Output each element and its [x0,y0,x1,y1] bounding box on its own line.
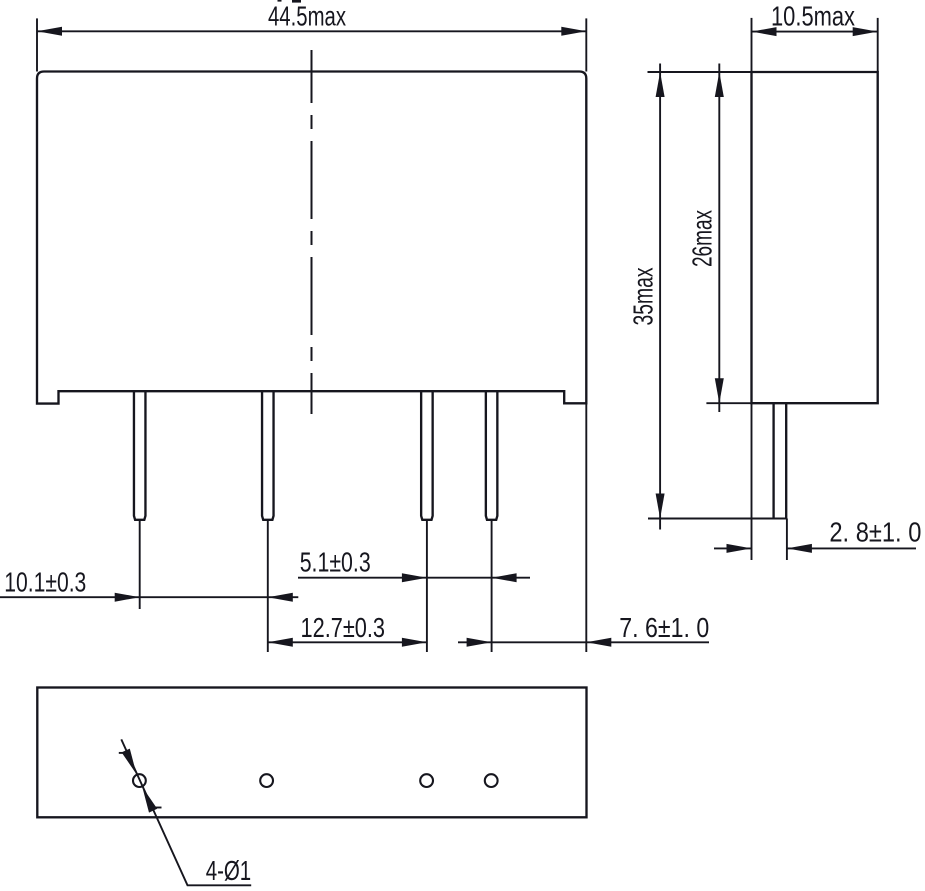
hole 1 [133,774,146,787]
arrowhead 2.8 right [787,544,812,553]
extension line pin2 [267,521,269,653]
top extension line for 35/26 dims [648,71,752,73]
bottom view outline [37,688,586,818]
svg-text:7. 6±1. 0: 7. 6±1. 0 [619,612,709,643]
dimension line 2.8 right part [787,547,916,549]
svg-text:44.5max: 44.5max [268,1,346,32]
extension line above body left (44.5 dim) [36,18,38,71]
leader lower arrowhead [142,787,157,813]
arrowhead 7.6 left [467,638,492,647]
dimension line 35max [659,64,661,530]
extension line pin4 [491,521,493,653]
leader lower tick [150,807,162,809]
arrowhead 26max bottom [715,378,724,403]
leader line 4-Ø1 [121,739,251,885]
arrowhead 2.8 left [727,544,752,553]
dimension line 12.7±0.3 [268,641,427,643]
svg-text:10.1±0.3: 10.1±0.3 [4,566,86,597]
pin 3 front view [421,391,433,520]
side view pin right line [785,403,787,518]
front view body outline [37,72,586,404]
dimension line 2.8 left part [714,547,752,549]
extension line pin-right down (2.8 dim) [786,519,788,561]
pin 4 front view [486,391,498,520]
extension lines 10.5 dim [751,18,753,72]
extension line pin1 [139,521,141,610]
svg-text:12.7±0.3: 12.7±0.3 [301,612,386,643]
pin 1 front view [134,391,146,520]
arrowhead 5.1 left [402,573,427,582]
arrowhead 26max top [715,72,724,97]
extension line body-left-edge down (2.8 dim) [751,403,753,560]
leader upper arrowhead [122,749,137,775]
arrowhead 35max top [656,72,665,97]
svg-text:35max: 35max [628,268,659,326]
hole 4 [485,774,498,787]
arrowhead 7.6 right [586,638,611,647]
dimension line 7.6±1.0 [458,641,709,643]
bottom extension line 35max (pin bottom) [648,518,787,520]
arrowhead 10.5 left [752,27,777,36]
side view pin left line [772,403,774,518]
arrowhead 12.7 right [402,638,427,647]
arrowhead 12.7 left [268,638,293,647]
arrowhead 10.1 right [268,593,293,602]
bottom extension line 26max (body bottom) [706,402,751,404]
arrowhead 10.5 right [853,27,878,36]
clipped mark top edge b [292,0,301,3]
svg-text:5.1±0.3: 5.1±0.3 [300,547,371,578]
extension line pin3 [426,521,428,653]
dimension line 5.1±0.3 [298,577,530,579]
svg-text:10.5max: 10.5max [771,0,855,31]
arrowhead 35max bottom [656,494,665,519]
pin 2 front view [262,391,274,520]
extension line body right edge down [585,403,587,652]
dimension line 10.5max [752,31,878,33]
dimension line 44.5max [37,30,586,32]
arrowhead right of 44.5 [561,27,586,36]
leader upper tick [119,752,131,754]
arrowhead 5.1 right [492,573,517,582]
extension line above body right (44.5 dim) [585,18,587,71]
svg-text:4-Ø1: 4-Ø1 [206,855,252,886]
svg-text:26max: 26max [687,210,718,267]
arrowhead 10.1 left [115,593,140,602]
svg-text:2. 8±1. 0: 2. 8±1. 0 [829,516,921,547]
hole 3 [420,774,433,787]
arrowhead left of 44.5 [37,27,62,36]
centerline (dash-dot) front view [311,50,313,414]
hole 2 [260,774,273,787]
dimension line 26max [718,64,720,413]
clipped mark top edge a [278,0,282,2]
side view body [752,72,878,403]
dimension line 10.1±0.3 [0,596,298,598]
